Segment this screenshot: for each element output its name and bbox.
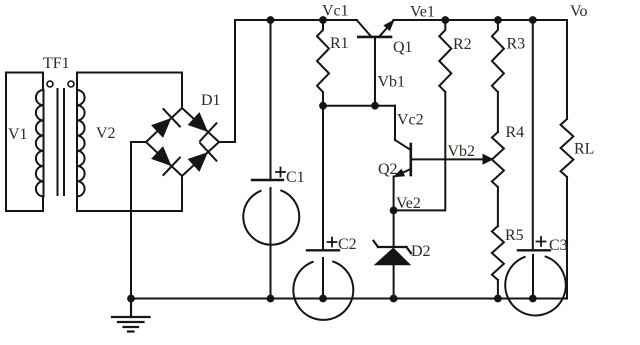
transistor Q2 collector lead — [395, 140, 411, 150]
wire AC source left loop — [6, 73, 43, 212]
junction node dot R3 top — [494, 16, 502, 24]
svg-text:Q1: Q1 — [393, 39, 413, 56]
transistor Q1 emitter lead — [380, 20, 394, 36]
zener diode D2 triangle — [376, 249, 410, 265]
wire bridge left corner to ground — [131, 142, 146, 299]
diode D1c bottom-left — [152, 147, 180, 175]
svg-text:Vc1: Vc1 — [322, 3, 349, 20]
svg-text:R1: R1 — [330, 35, 349, 52]
capacitor C1 bottom electrode circle — [243, 191, 299, 245]
wire R2 bottom to node Ve2 — [394, 92, 446, 210]
top rail Ve1 segment — [393, 19, 567, 21]
junction node dot Vb1 — [371, 102, 379, 110]
wire Q2 base Vb2 — [411, 158, 484, 160]
junction node dot Ve2 — [390, 207, 398, 215]
zener diode D2 anode lead — [393, 265, 395, 299]
svg-text:R4: R4 — [506, 124, 525, 141]
svg-text:TF1: TF1 — [43, 55, 70, 72]
capacitor C3 top plate — [518, 249, 550, 251]
svg-text:Vb2: Vb2 — [448, 143, 476, 160]
wire bridge right corner to top rail — [219, 20, 235, 142]
svg-text:RL: RL — [574, 141, 594, 158]
plus sign C3 — [537, 237, 546, 246]
junction node dot ground left — [127, 295, 135, 303]
svg-text:R2: R2 — [453, 36, 472, 53]
transistor Q2 emitter lead — [394, 169, 411, 177]
zener diode D2 cathode lead — [393, 210, 395, 247]
svg-text:Ve2: Ve2 — [396, 195, 421, 212]
diode D1b top-right — [189, 113, 217, 141]
svg-text:Ve1: Ve1 — [410, 4, 435, 21]
diode D1a top-left — [152, 109, 180, 137]
capacitor C1 bottom lead — [270, 188, 272, 299]
resistor RL — [561, 119, 574, 177]
resistor R3 — [492, 20, 504, 92]
transistor Q1 collector lead — [357, 20, 371, 36]
svg-text:Vo: Vo — [570, 3, 588, 20]
junction node dot C3 bottom — [529, 295, 537, 303]
wire top rail to RL — [566, 20, 568, 119]
transformer TF1 core — [58, 89, 65, 195]
junction node dot R1 top Vc1 — [319, 16, 327, 24]
svg-text:R5: R5 — [505, 227, 524, 244]
capacitor C1 top lead — [270, 20, 272, 179]
wire RL bottom to ground rail — [566, 177, 568, 299]
resistor R2 — [439, 20, 451, 92]
junction node dot C2 bottom — [319, 295, 327, 303]
wire Q1 base lead Vb1 — [374, 37, 376, 106]
transformer TF1 polarity dot right — [68, 81, 74, 87]
capacitor C2 top plate — [307, 249, 339, 251]
svg-text:R3: R3 — [507, 36, 526, 53]
wire R3 to R4 — [497, 92, 499, 132]
svg-text:V1: V1 — [8, 126, 28, 143]
capacitor C3 top lead — [532, 20, 534, 249]
transistor Q1 base bar — [358, 36, 391, 39]
ground symbol — [112, 299, 150, 332]
plus sign C1 — [276, 168, 285, 177]
svg-text:V2: V2 — [96, 125, 116, 142]
capacitor C2 top lead from node Vb1 — [322, 106, 324, 249]
junction node dot R1 bottom — [319, 102, 327, 110]
top rail Vc1 segment — [235, 19, 357, 21]
Vb2 wiper arrowhead — [483, 155, 493, 165]
wire secondary bottom to bridge — [77, 176, 182, 211]
junction node dot R2 top Ve1 — [441, 16, 449, 24]
svg-text:Vc2: Vc2 — [397, 112, 424, 129]
junction node dot C1 bottom — [267, 295, 275, 303]
transformer TF1 polarity dot left — [47, 81, 53, 87]
wire node Vc2 riser — [394, 106, 396, 140]
svg-text:D1: D1 — [201, 92, 221, 109]
capacitor C2 bottom lead — [322, 258, 324, 299]
wire Q2 emitter to node Ve2 — [393, 177, 395, 211]
wire node Vb1 horizontal — [323, 105, 395, 107]
svg-text:C3: C3 — [549, 237, 568, 254]
plus sign C2 — [328, 238, 337, 247]
diode D1d bottom-right — [189, 143, 217, 171]
potentiometer R4 — [492, 132, 504, 187]
capacitor C3 bottom lead — [532, 255, 534, 299]
resistor R5 — [492, 226, 504, 280]
zener diode D2 bar — [374, 241, 412, 253]
svg-text:Vb1: Vb1 — [378, 74, 406, 91]
diode bridge D1 frame — [146, 108, 219, 176]
svg-text:C1: C1 — [286, 169, 305, 186]
svg-text:D2: D2 — [411, 243, 431, 260]
transformer TF1 primary winding V1 — [36, 73, 44, 212]
wire secondary top to bridge — [77, 73, 182, 109]
svg-text:Q2: Q2 — [378, 161, 398, 178]
junction node dot D2 bottom — [390, 295, 398, 303]
resistor R1 — [317, 20, 329, 106]
capacitor C1 top plate — [252, 179, 283, 181]
junction node dot C1 top — [267, 16, 275, 24]
junction node dot R5 bottom — [494, 295, 502, 303]
wire R4 to R5 — [497, 187, 499, 226]
junction node dot C3 top — [529, 16, 537, 24]
capacitor C2 bottom electrode circle — [293, 262, 353, 320]
transistor Q2 base bar — [409, 144, 412, 175]
ground rail — [131, 298, 567, 300]
svg-text:C2: C2 — [338, 236, 357, 253]
capacitor C3 bottom electrode circle — [505, 257, 566, 316]
transformer TF1 secondary winding V2 — [77, 73, 85, 212]
wire R5 to ground rail — [497, 280, 499, 299]
